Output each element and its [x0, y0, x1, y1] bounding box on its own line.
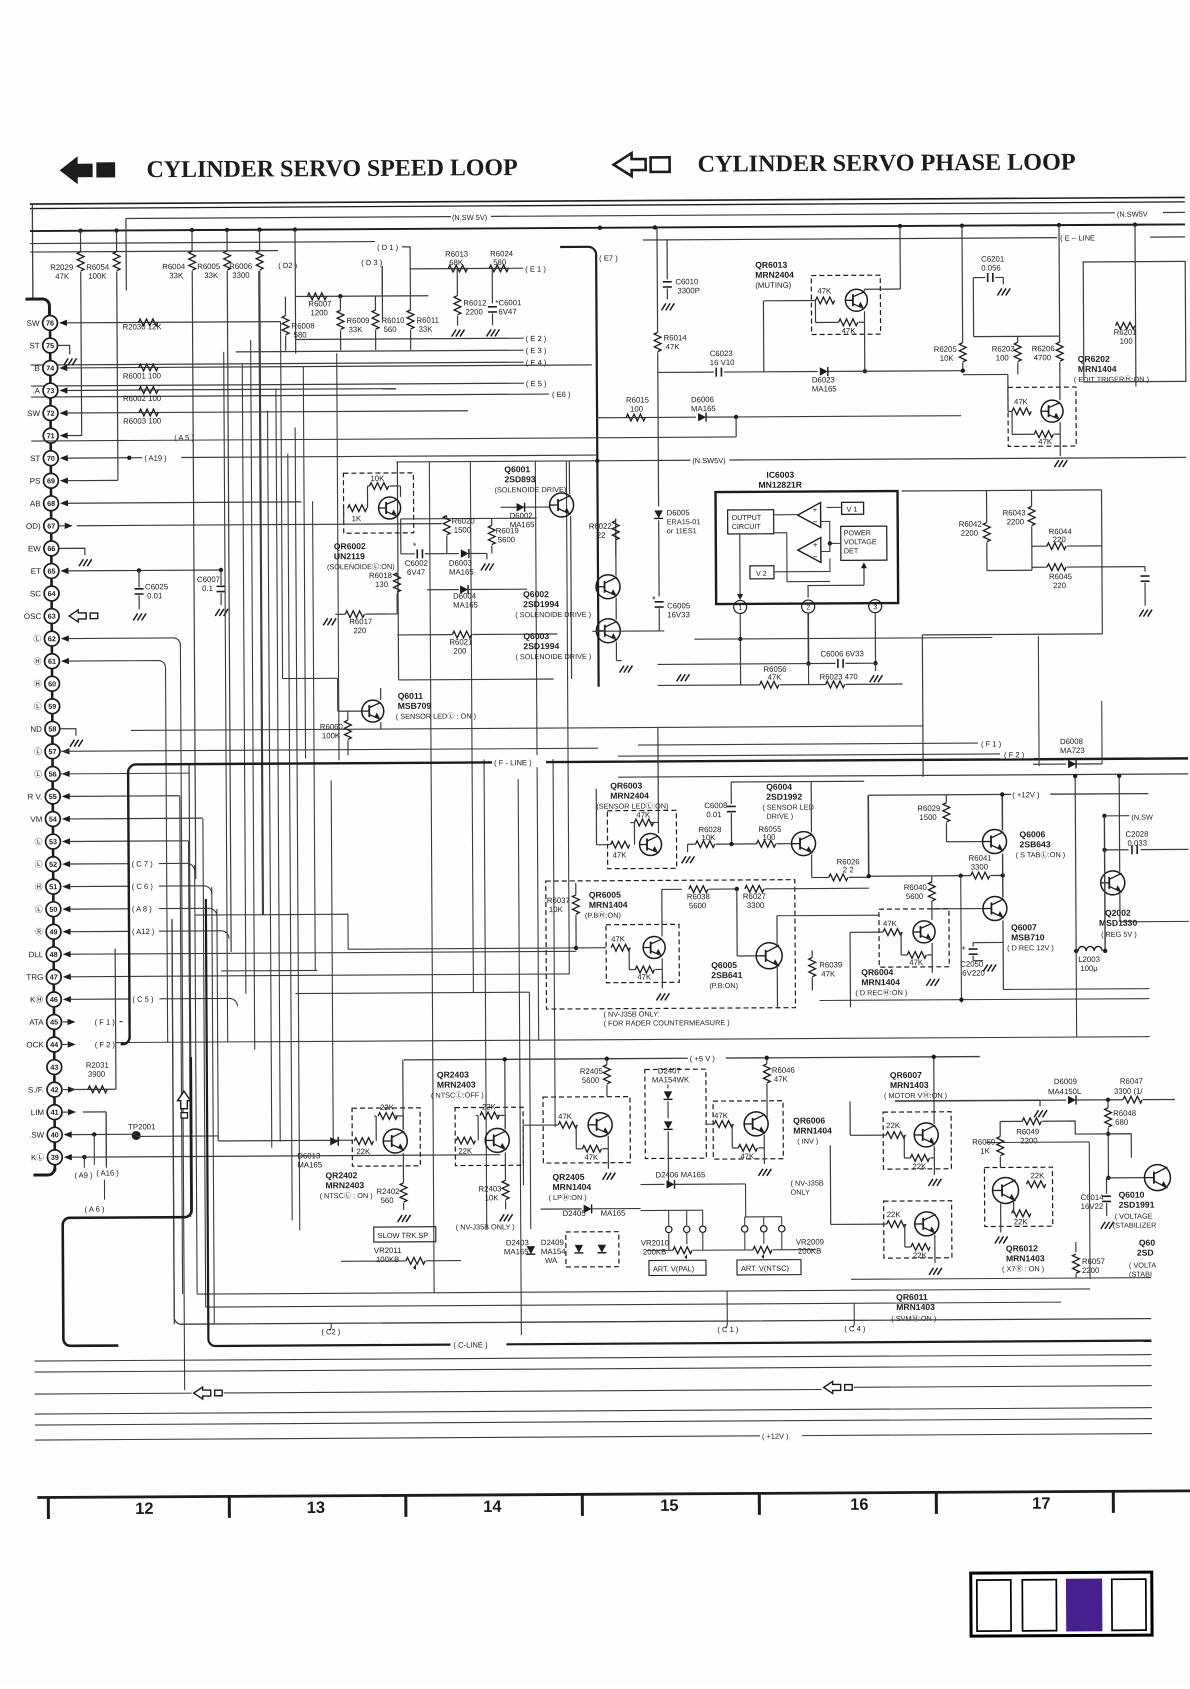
- svg-text:QR2402: QR2402: [325, 1170, 357, 1180]
- svg-text:( SENSOR LED: ( SENSOR LED: [762, 803, 814, 812]
- dashed box QR6007: [883, 1112, 951, 1169]
- resistor 47K base QR6003: [611, 841, 630, 848]
- wire vertical bundle: [276, 389, 280, 1142]
- svg-text:R6041: R6041: [969, 854, 992, 863]
- svg-text:R6003 100: R6003 100: [123, 416, 162, 425]
- ground R6028: [682, 856, 687, 863]
- wire base QR6202 left: [1008, 410, 1012, 412]
- pin 56 wire arrow: [62, 771, 70, 777]
- wire Q6006 base: [947, 841, 983, 843]
- svg-text:C2028: C2028: [1125, 830, 1148, 839]
- resistor R6019 5600: [491, 518, 493, 525]
- svg-text:68K: 68K: [449, 258, 464, 267]
- wire Q2002 emitter out: [1119, 894, 1121, 922]
- wire pin40 row: [71, 1133, 136, 1135]
- wire Q6010 collector hook: [1108, 1134, 1131, 1158]
- svg-text:QR6011: QR6011: [896, 1292, 928, 1302]
- svg-text:MA165: MA165: [510, 520, 535, 529]
- wire pin61 row: [68, 661, 167, 1043]
- svg-text:10K: 10K: [701, 833, 716, 842]
- dashed outer box NV-J35B section: [546, 880, 796, 1009]
- dashed box QR6004: [879, 909, 949, 967]
- resistor R6041 3300: [971, 872, 990, 879]
- svg-text:MA154: MA154: [541, 1247, 566, 1256]
- svg-text:C6007: C6007: [197, 575, 220, 584]
- svg-text:MA165: MA165: [691, 404, 716, 413]
- junction: [190, 228, 194, 232]
- transistor Q6003: [596, 619, 620, 643]
- svg-text:200KB: 200KB: [798, 1247, 821, 1256]
- resistor 1K base: [348, 505, 367, 512]
- svg-text:10K: 10K: [370, 474, 385, 483]
- svg-text:Ⓛ: Ⓛ: [33, 634, 41, 643]
- svg-text:(N.SW 5V): (N.SW 5V): [452, 213, 487, 222]
- svg-text:+: +: [961, 944, 966, 953]
- svg-text:VR2009: VR2009: [796, 1237, 824, 1246]
- dashed box QR2403: [455, 1107, 523, 1165]
- pin 48 wire arrow: [63, 951, 71, 957]
- svg-text:22K: 22K: [1014, 1217, 1029, 1226]
- svg-text:47K: 47K: [842, 326, 857, 335]
- svg-text:67: 67: [47, 521, 55, 530]
- pin 76: [43, 315, 58, 330]
- svg-text:10K: 10K: [549, 905, 564, 914]
- wire vertical bundle: [180, 796, 183, 1294]
- wire vertical bundle: [195, 865, 197, 1294]
- pin 58 ground stub: [60, 729, 76, 736]
- svg-text:2SB643: 2SB643: [1020, 839, 1051, 849]
- resistor R6015 100: [596, 416, 696, 419]
- resistor R6013 68K: [448, 265, 467, 272]
- wire E-line row: [30, 242, 375, 244]
- resistor R2403 10K: [504, 1152, 506, 1180]
- svg-text:5600: 5600: [582, 1076, 600, 1085]
- svg-text:33K: 33K: [204, 271, 219, 280]
- transistor QR6002: [379, 497, 401, 519]
- pin 47: [46, 969, 61, 984]
- svg-text:R6018: R6018: [369, 571, 392, 580]
- pin 42 wire arrow out: [68, 1086, 76, 1092]
- svg-text:6V47: 6V47: [498, 307, 516, 316]
- wire pin54 row: [69, 817, 202, 820]
- wire pin71 stub: [67, 434, 81, 436]
- svg-text:D6008: D6008: [1060, 737, 1083, 746]
- svg-text:ERA15-01: ERA15-01: [667, 517, 701, 526]
- pin 73: [43, 383, 58, 398]
- svg-text:MSB710: MSB710: [1011, 932, 1045, 942]
- wire vertical mid: [337, 353, 339, 760]
- svg-text:OSC: OSC: [24, 612, 42, 621]
- svg-text:R2402: R2402: [377, 1187, 400, 1196]
- svg-text:22: 22: [597, 531, 606, 540]
- pin 43: [47, 1060, 62, 1075]
- junction: [1057, 223, 1061, 227]
- svg-text:MRN2404: MRN2404: [755, 270, 794, 280]
- resistor R6054 100K: [115, 231, 117, 252]
- ruler tick: [228, 1496, 231, 1517]
- ruler tick: [404, 1495, 407, 1516]
- diode D2409b: [598, 1245, 606, 1253]
- wire y972 row: [221, 969, 317, 972]
- wire Q6001 emitter chain: [570, 516, 573, 679]
- resistor R6039 47K: [811, 951, 813, 958]
- wire R6013 row: [410, 267, 523, 270]
- diode D2409a: [575, 1245, 583, 1253]
- wire y730 long: [131, 726, 923, 731]
- wire +12V bus: [867, 795, 869, 876]
- wire vertical mid: [429, 462, 434, 1293]
- diode D2407b: [664, 1121, 672, 1129]
- svg-text:( C 4 ): ( C 4 ): [844, 1324, 866, 1333]
- svg-text:( E7 ): ( E7 ): [599, 254, 618, 263]
- wire emitter down to D6023 row: [864, 322, 866, 371]
- svg-text:( F 2 ): ( F 2 ): [1004, 750, 1025, 759]
- wire (F2) right mid: [618, 754, 1000, 756]
- pin 59: [45, 699, 60, 714]
- pin 72 wire arrow: [60, 410, 68, 416]
- svg-text:( E 5 ): ( E 5 ): [526, 379, 547, 388]
- wires QR2405: [607, 1136, 609, 1149]
- wire QR6004 base left: [850, 931, 883, 933]
- resistor R6021 200: [452, 631, 471, 638]
- svg-text:Ⓡ: Ⓡ: [35, 928, 43, 937]
- page nav outer box: [971, 1572, 1152, 1636]
- pin 70: [43, 451, 58, 466]
- svg-text:(N.SW: (N.SW: [1131, 813, 1153, 822]
- svg-text:44: 44: [50, 1040, 58, 1049]
- ground near IC pin1 row: [677, 674, 682, 681]
- svg-text:Q6004: Q6004: [766, 782, 792, 792]
- svg-text:47K: 47K: [636, 810, 651, 819]
- svg-text:V 1: V 1: [847, 505, 858, 514]
- wire pin47 row: [70, 974, 569, 977]
- wire N.SW5V top bus: [126, 217, 451, 219]
- svg-text:57: 57: [48, 747, 56, 756]
- resistor R2029 47K: [79, 231, 81, 252]
- svg-text:10K: 10K: [940, 354, 955, 363]
- svg-text:2SD1994: 2SD1994: [523, 641, 559, 651]
- wire E6 row: [31, 394, 549, 397]
- pin 39 wire arrow: [64, 1154, 72, 1160]
- svg-text:47K: 47K: [740, 1152, 755, 1161]
- ground under C6007: [215, 609, 220, 616]
- thick bus path B (left): [62, 1057, 193, 1346]
- svg-text:R6014: R6014: [664, 333, 688, 342]
- boxed label ART. V(PAL): [649, 1260, 706, 1275]
- svg-text:47K: 47K: [714, 1111, 729, 1120]
- svg-text:560: 560: [381, 1196, 395, 1205]
- svg-text:1K: 1K: [980, 1147, 990, 1156]
- ground QR6012: [1000, 1203, 1002, 1232]
- wire long row y421: [736, 416, 961, 417]
- pin 45 wire arrow out: [68, 1019, 76, 1025]
- pin 53 wire arrow: [62, 838, 70, 844]
- wire row y635: [592, 630, 664, 632]
- wire vertical bundle: [224, 352, 228, 1042]
- pin 73 wire arrow: [59, 387, 67, 393]
- wire Q2002 main column: [1103, 816, 1106, 951]
- svg-text:TP2001: TP2001: [128, 1122, 155, 1131]
- diode D6005 ERA15-01: [657, 372, 660, 506]
- svg-text:R6047: R6047: [1120, 1077, 1143, 1086]
- svg-text:72: 72: [47, 409, 55, 418]
- svg-text:40: 40: [51, 1130, 59, 1139]
- diode D6002 MA165: [517, 503, 525, 511]
- svg-text:D6006: D6006: [691, 395, 714, 404]
- svg-text:R6043: R6043: [1003, 508, 1026, 517]
- dashed box QR6202: [1008, 387, 1076, 446]
- svg-text:47K: 47K: [817, 286, 832, 295]
- svg-text:CYLINDER SERVO PHASE LOOP: CYLINDER SERVO PHASE LOOP: [698, 150, 1076, 178]
- capacitor C6007 0.1: [220, 570, 222, 585]
- svg-text:AB: AB: [30, 499, 41, 508]
- junction E7/box: [595, 459, 599, 463]
- svg-text:( A 6 ): ( A 6 ): [85, 1205, 105, 1214]
- svg-text:71: 71: [47, 431, 55, 440]
- svg-text:QR2405: QR2405: [552, 1172, 584, 1182]
- IC6003 pin 1: [734, 600, 747, 613]
- junction: [598, 226, 602, 230]
- svg-text:(N.SW5V: (N.SW5V: [1117, 210, 1148, 219]
- svg-text:( E6 ): ( E6 ): [552, 390, 571, 399]
- svg-text:51: 51: [49, 882, 57, 891]
- svg-text:R6010: R6010: [381, 316, 405, 325]
- svg-text:( NTSCⓁ : ON ): ( NTSCⓁ : ON ): [320, 1191, 373, 1200]
- pin 62: [44, 631, 59, 646]
- svg-text:Q6002: Q6002: [523, 589, 549, 599]
- svg-text:D6005: D6005: [667, 508, 691, 517]
- wire vertical mid: [518, 779, 521, 1335]
- svg-text:D6004: D6004: [453, 591, 477, 600]
- resistor R6026 22: [812, 876, 829, 878]
- svg-text:76: 76: [46, 319, 54, 328]
- svg-text:( F 2 ): ( F 2 ): [95, 1040, 116, 1049]
- svg-text:R6049: R6049: [1016, 1127, 1039, 1136]
- svg-text:( E 1 ): ( E 1 ): [525, 265, 546, 274]
- svg-text:ET: ET: [31, 567, 41, 576]
- svg-text:C6025: C6025: [145, 582, 169, 591]
- svg-text:Ⓗ: Ⓗ: [35, 883, 43, 892]
- wire bottom row 3 with arrow: [35, 1392, 192, 1395]
- svg-text:R6042: R6042: [959, 520, 982, 529]
- svg-text:MA165: MA165: [601, 1209, 626, 1218]
- pot VR2010: [673, 1247, 692, 1254]
- svg-text:ATA: ATA: [29, 1018, 44, 1027]
- wire right box: [1083, 261, 1186, 382]
- junction: [78, 229, 82, 233]
- wire y495 top right: [902, 490, 987, 492]
- resistor R6011 33K: [409, 269, 411, 310]
- solenoid box bottom edge: [399, 678, 554, 681]
- capacitor C6023 16V10: [658, 371, 714, 373]
- pin 70 wire arrow: [60, 455, 68, 461]
- power voltage det box: [841, 526, 887, 560]
- junction: [898, 224, 902, 228]
- svg-text:63: 63: [48, 612, 56, 621]
- svg-text:R6040: R6040: [904, 883, 928, 892]
- pin 65: [44, 564, 59, 579]
- svg-text:100: 100: [996, 353, 1010, 362]
- svg-text:45: 45: [50, 1018, 58, 1027]
- pin 75: [43, 338, 58, 353]
- svg-text:MRN2403: MRN2403: [437, 1079, 476, 1089]
- ground under C6025: [133, 613, 138, 620]
- svg-text:R6045: R6045: [1049, 572, 1073, 581]
- wire QR6004 collector up: [931, 909, 933, 920]
- wire main 5V bus with junctions: [30, 224, 1185, 231]
- svg-text:.B: .B: [32, 364, 40, 373]
- wire +5V bus: [404, 1058, 688, 1060]
- svg-text:S./F.: S./F.: [28, 1085, 44, 1094]
- wire Q6011 collector emitter: [380, 688, 382, 700]
- junction: [960, 223, 964, 227]
- wire right columns: [1088, 1142, 1091, 1279]
- svg-text:QR6006: QR6006: [793, 1115, 825, 1125]
- svg-text:or 11ES1: or 11ES1: [667, 526, 697, 535]
- wire Q6006 collector to +12V: [1001, 794, 1003, 830]
- svg-text:130: 130: [375, 580, 389, 589]
- resistor 47K base QR6013: [815, 297, 834, 304]
- svg-text:( NV-J35B ONLY ): ( NV-J35B ONLY ): [456, 1222, 515, 1231]
- svg-text:ST: ST: [30, 454, 40, 463]
- ground R6017: [323, 618, 328, 625]
- wire QR6007 base left: [850, 1134, 886, 1136]
- svg-text:2SD1991: 2SD1991: [1119, 1200, 1155, 1210]
- svg-text:56: 56: [49, 769, 57, 778]
- svg-text:59: 59: [48, 702, 56, 711]
- svg-text:( D 3 ): ( D 3 ): [361, 258, 383, 267]
- wire Q6010 base: [1108, 1177, 1144, 1179]
- resistor R6045 220: [1047, 564, 1066, 571]
- pin 50: [46, 902, 61, 917]
- wire vertical x925: [921, 635, 924, 777]
- svg-text:75: 75: [46, 341, 54, 350]
- svg-text:0.01: 0.01: [706, 810, 721, 819]
- svg-text:MRN1403: MRN1403: [890, 1080, 929, 1090]
- svg-text:CIRCUIT: CIRCUIT: [732, 522, 762, 531]
- dashed box QR6003: [607, 810, 676, 868]
- dashed box D2409: [566, 1232, 619, 1267]
- resistor R2402 560: [402, 1153, 404, 1183]
- svg-text:560: 560: [384, 325, 398, 334]
- pin 41 wire arrow out: [68, 1109, 76, 1115]
- svg-text:47K: 47K: [613, 851, 628, 860]
- wire L2003 ends: [1074, 949, 1078, 953]
- svg-text:5600: 5600: [689, 901, 707, 910]
- wire QR6005b collector up: [661, 889, 663, 936]
- wire y951 to QR6005 base: [576, 947, 606, 949]
- wires QR6011: [934, 1235, 936, 1247]
- svg-text:3900: 3900: [88, 1070, 106, 1079]
- svg-text:1500: 1500: [454, 526, 472, 535]
- pin 41: [47, 1105, 62, 1120]
- svg-text:C6006 6V33: C6006 6V33: [820, 649, 863, 658]
- transistor Q6002: [596, 575, 620, 599]
- pin chain vertical: [50, 315, 55, 1171]
- wire QR6013 collector to bus: [899, 226, 901, 289]
- pin 46: [46, 992, 61, 1007]
- svg-text:MRN2404: MRN2404: [610, 790, 649, 800]
- wire bottom row 6 +12V: [35, 1436, 760, 1440]
- svg-text:C6014: C6014: [1081, 1193, 1105, 1202]
- svg-text:QR6012: QR6012: [1006, 1243, 1038, 1253]
- svg-text:R V.: R V.: [27, 792, 42, 801]
- wire QR6002 base from pin67 row: [343, 508, 345, 524]
- ground under C6010: [661, 303, 666, 310]
- svg-text:( F - LINE ): ( F - LINE ): [494, 758, 532, 767]
- pin 71 wire arrow: [60, 432, 68, 438]
- wires QR6004: [931, 943, 933, 955]
- terminal circles PAL: [666, 1226, 672, 1232]
- wire IC pin3 down: [874, 613, 876, 663]
- svg-text:OCK: OCK: [26, 1040, 44, 1049]
- resistor R6042 2200: [986, 491, 988, 523]
- svg-text:VM: VM: [30, 815, 42, 824]
- ground D6003: [486, 553, 488, 559]
- svg-text:47K: 47K: [1014, 397, 1029, 406]
- svg-text:1500: 1500: [919, 813, 937, 822]
- resistor 47K emitter QR6202: [1034, 431, 1053, 438]
- svg-text:(P.BⒽ:ON): (P.BⒽ:ON): [585, 911, 621, 920]
- svg-text:3300 (1/: 3300 (1/: [1114, 1087, 1143, 1096]
- svg-text:( SOLENOIDE DRIVE ): ( SOLENOIDE DRIVE ): [515, 652, 591, 661]
- resistor R6044 220: [1032, 545, 1047, 547]
- svg-text:Q2002: Q2002: [1105, 908, 1131, 918]
- svg-text:580: 580: [493, 258, 507, 267]
- svg-text:−: −: [813, 518, 818, 527]
- svg-text:60: 60: [48, 679, 56, 688]
- outer box solenoid section: [396, 460, 690, 462]
- svg-text:22K: 22K: [913, 1251, 928, 1260]
- svg-text:43: 43: [50, 1063, 58, 1072]
- svg-text:2200: 2200: [465, 307, 483, 316]
- pin 40: [47, 1127, 62, 1142]
- svg-text:47K: 47K: [558, 1112, 573, 1121]
- terminal circles NTSC: [742, 1226, 748, 1232]
- wire (F1) right mid: [638, 743, 978, 745]
- svg-text:2SD1994: 2SD1994: [523, 599, 559, 609]
- svg-text:MRN1404: MRN1404: [793, 1125, 832, 1135]
- pin 53: [46, 834, 61, 849]
- junction: [225, 228, 229, 232]
- transistor QR6013: [845, 289, 867, 311]
- IC IC6003 MN12821R body: [716, 491, 899, 604]
- ruler tick: [1112, 1491, 1115, 1512]
- wire pin52 (C 7) row: [70, 863, 130, 865]
- resistor R6043 2200: [1031, 490, 1033, 506]
- wire QR2403 collector to +5V: [504, 1059, 506, 1128]
- wire output circuit to pin1 (arrow): [739, 534, 741, 598]
- ground QR6005b: [656, 993, 661, 1000]
- svg-text:D2409: D2409: [541, 1238, 564, 1247]
- resistor R2405 5600: [606, 1059, 608, 1065]
- svg-text:Ⓗ: Ⓗ: [33, 657, 41, 666]
- svg-text:R6046: R6046: [772, 1066, 795, 1075]
- svg-text:QR6013: QR6013: [755, 260, 787, 270]
- svg-text:R6029: R6029: [917, 804, 940, 813]
- svg-text:MA165: MA165: [297, 1160, 322, 1169]
- wire row to (E7) bend: [30, 251, 278, 252]
- icon: solid square: [96, 162, 115, 177]
- pin 51 wire arrow: [62, 883, 70, 889]
- wires pot terminals: [668, 1232, 670, 1250]
- svg-text:22K: 22K: [1030, 1171, 1045, 1180]
- wire QR6013 emitter: [863, 311, 865, 322]
- svg-text:SLOW TRK.SP: SLOW TRK.SP: [378, 1231, 428, 1240]
- wire pin39 row: [71, 1155, 500, 1157]
- resistor R6205 10K: [961, 226, 964, 343]
- svg-text:Q6006: Q6006: [1019, 829, 1045, 839]
